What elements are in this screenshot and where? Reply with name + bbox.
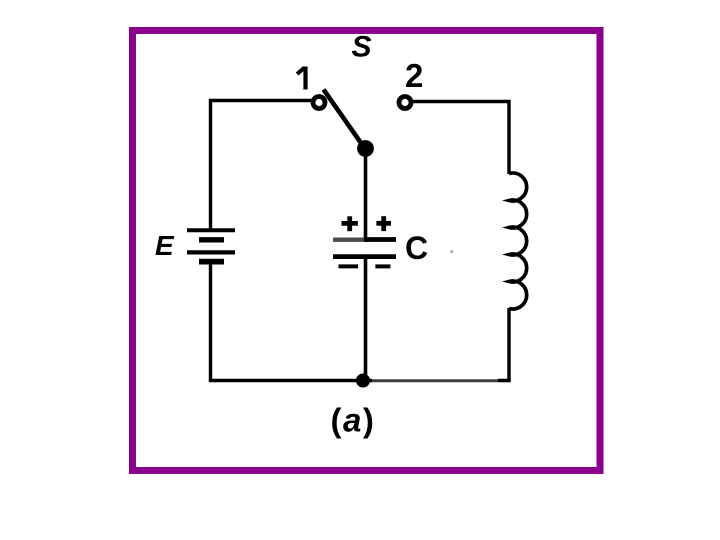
svg-text:E: E <box>155 230 175 261</box>
switch S pole 1 contact <box>313 97 325 109</box>
node: bottom junction <box>356 374 370 388</box>
battery E <box>187 230 235 261</box>
capacitor + polarity left <box>342 216 358 231</box>
wire: pivot to capacitor top <box>364 148 368 240</box>
svg-text:2: 2 <box>405 57 423 94</box>
wire: bottom rail right <box>372 379 498 382</box>
capacitor C <box>333 240 396 257</box>
svg-text:S: S <box>352 31 372 64</box>
switch S pole 2 contact <box>399 97 411 109</box>
wire: switch pole 2 to inductor top <box>413 102 509 175</box>
wire: battery bottom to bottom rail <box>209 263 212 381</box>
capacitor - polarity right <box>375 264 390 268</box>
stray mark <box>450 250 453 253</box>
wire: battery top to switch pole 1 <box>211 101 312 233</box>
svg-text:(a): (a) <box>331 402 376 439</box>
switch S pivot node <box>357 140 374 157</box>
wire: capacitor bottom to bottom rail <box>364 257 368 381</box>
capacitor - polarity left <box>339 264 359 268</box>
inductor L coil <box>509 173 527 309</box>
switch S blade <box>324 90 365 149</box>
wire: bottom rail left <box>209 379 372 383</box>
svg-text:C: C <box>405 230 428 266</box>
label 1 <box>297 67 305 90</box>
capacitor + polarity right <box>376 216 391 231</box>
wire: bottom rail right corner <box>498 379 511 383</box>
wire: inductor bottom to bottom rail <box>507 308 510 381</box>
